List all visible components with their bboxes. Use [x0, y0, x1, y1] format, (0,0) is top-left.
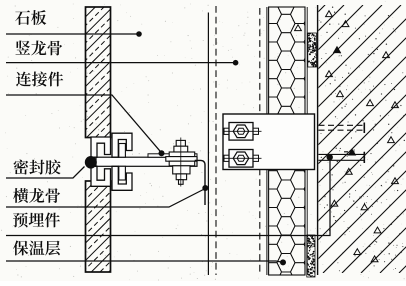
concrete speckle dots — [319, 7, 405, 272]
sealant blob — [85, 156, 97, 169]
label: sealant — [14, 160, 61, 175]
cavity hidden edge (dashed) — [259, 8, 261, 272]
keel hidden edge (dashed) — [215, 6, 217, 275]
bolt B1 on plate — [223, 123, 262, 141]
concrete aggregate triangles — [295, 11, 399, 262]
leader baowenceng (insulation) — [6, 261, 283, 262]
label: embedded part — [13, 212, 60, 227]
vertical keel front edge — [207, 13, 209, 276]
connector top-left clamp — [91, 137, 111, 157]
leader shulonggu (vertical keel) — [6, 62, 236, 64]
label: insulation layer — [13, 240, 60, 255]
adhesive layer line — [306, 7, 308, 275]
connector bottom-right hook — [112, 166, 132, 190]
leader yumaijian (embedded part) — [6, 159, 330, 236]
mortar speckle upper segment — [308, 33, 317, 67]
connector extrusion arm — [96, 157, 197, 166]
embedded plate — [223, 114, 315, 170]
junction dot on bracket — [202, 185, 208, 191]
connector top-right hook — [112, 133, 132, 157]
label: connector — [16, 72, 63, 87]
keel bracket — [195, 160, 205, 205]
leader henglonggu (horizontal keel) — [6, 189, 205, 208]
leader shiban (stone) — [6, 33, 139, 35]
bolt B2 on plate — [223, 150, 262, 168]
mortar speckle lower segment — [307, 235, 315, 277]
anchor bolt stack — [166, 140, 197, 184]
label: vertical keel — [15, 41, 62, 56]
leader mifengjiao (sealant) — [6, 167, 85, 179]
anchor bar lower — [319, 152, 365, 163]
connector bottom-left clamp — [91, 166, 111, 186]
anchor bar upper (dashed) — [319, 123, 365, 134]
label: horizontal keel — [13, 188, 60, 203]
leader lianjiejian (connector) — [6, 95, 162, 153]
concrete wall face — [317, 5, 319, 275]
label: stone panel — [15, 10, 46, 25]
